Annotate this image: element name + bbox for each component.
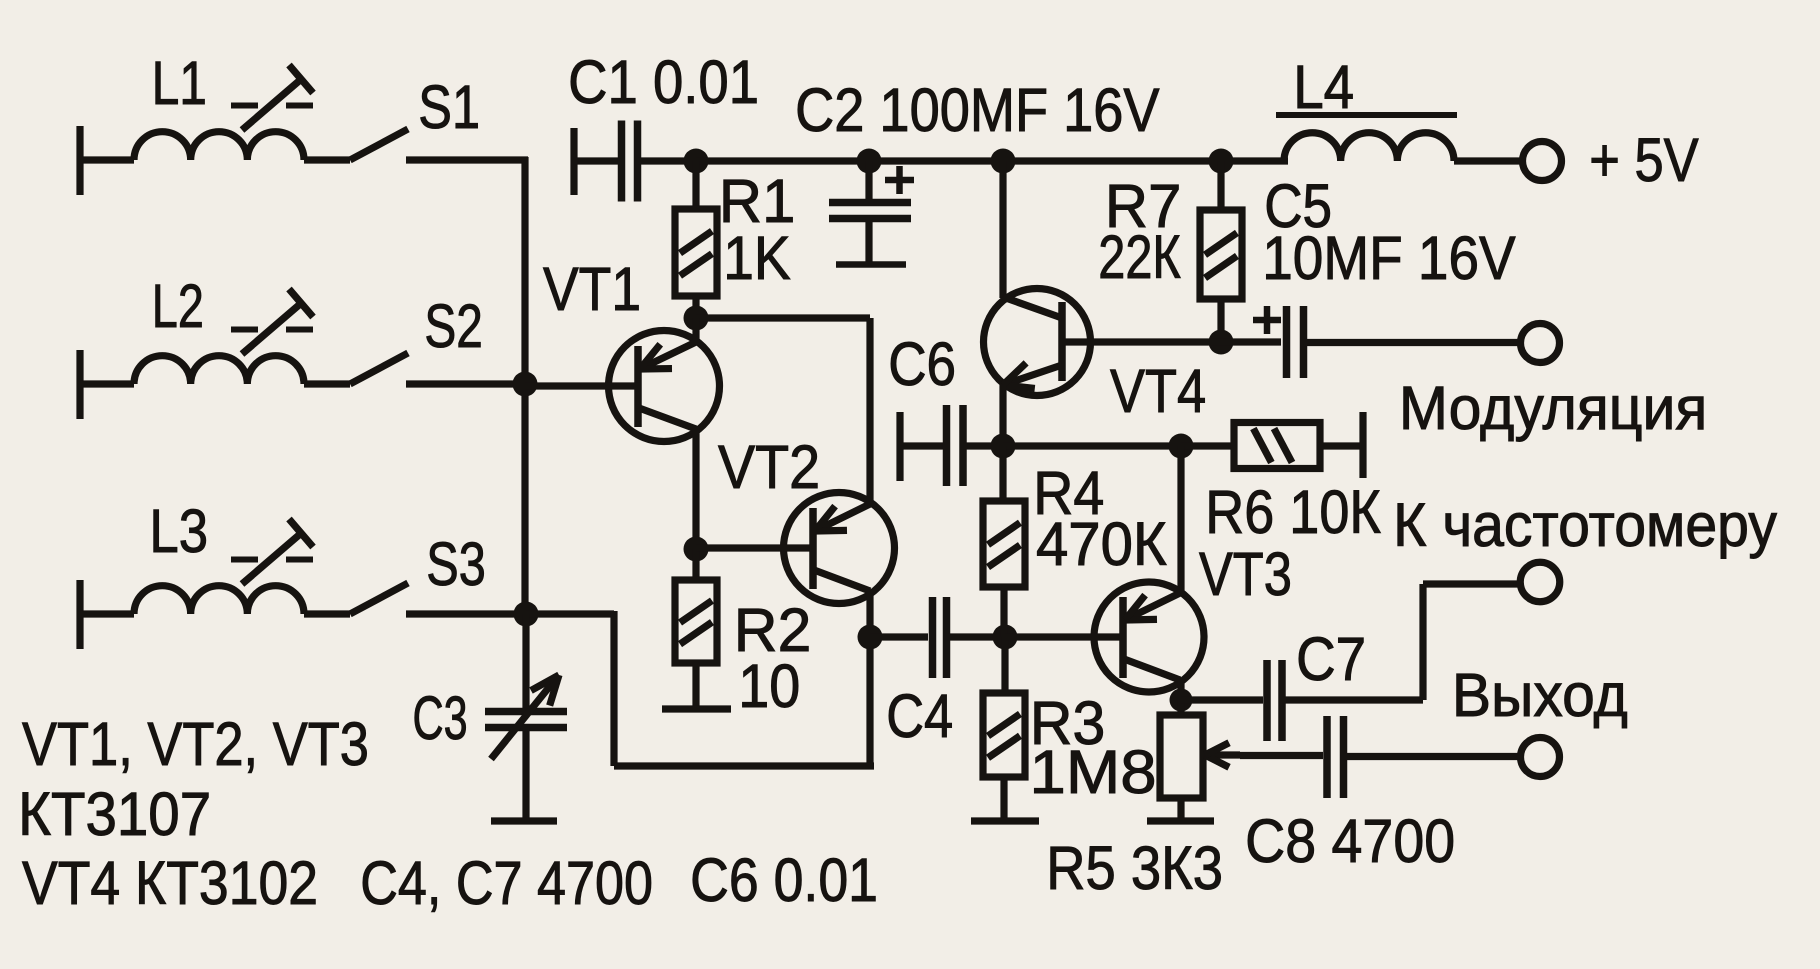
transistor VT4 collector wire [999, 161, 1006, 298]
node C2 junction on rail [857, 149, 882, 174]
label VT2 [718, 434, 820, 502]
wire VT3 node to C7 [1181, 696, 1263, 703]
adjustable core arrow of L1 [231, 65, 313, 130]
svg-text:C3: C3 [413, 685, 468, 753]
resistor R3 bottom lead [1000, 777, 1007, 821]
svg-text:C1 0.01: C1 0.01 [568, 49, 759, 116]
label VT4 [1110, 358, 1206, 426]
label +5V [1589, 126, 1699, 195]
transistor VT3 emitter [1125, 446, 1181, 620]
resistor R1 top lead [692, 161, 699, 209]
svg-text:VT4: VT4 [1110, 358, 1206, 426]
label R3 [1030, 689, 1105, 757]
svg-text:C6: C6 [888, 331, 956, 399]
inductor L3 [80, 580, 350, 649]
note C6 0.01 [690, 847, 878, 915]
capacitor C5 plates [1287, 306, 1304, 378]
resistor R4 bottom lead [1000, 587, 1007, 637]
wire C6 node to R6 node [1003, 442, 1181, 449]
label L2 [152, 272, 204, 340]
resistor R2 bottom lead [692, 663, 699, 708]
wire C6 to VT4 emitter node [963, 442, 1003, 449]
capacitor C6 plates [947, 405, 964, 486]
label R2 value 10 [738, 653, 800, 721]
label C6 [888, 331, 956, 399]
transistor VT4 emitter [1003, 363, 1062, 446]
note VT1 VT2 VT3 [22, 710, 369, 779]
resistor R7 [1200, 210, 1242, 299]
svg-text:10MF 16V: 10MF 16V [1262, 224, 1516, 292]
svg-text:22К: 22К [1098, 223, 1180, 292]
capacitor C3 plates [485, 712, 567, 728]
svg-text:470К: 470К [1036, 510, 1167, 579]
transistor VT1 emitter [640, 318, 696, 369]
capacitor C1 left lead [574, 157, 618, 164]
node R7 - VT4 base - C5 junction [1209, 330, 1234, 355]
inductor L2 [80, 350, 350, 419]
capacitor C3 arrow [491, 675, 559, 759]
label C2 100MF 16V [795, 77, 1160, 145]
label output [1452, 661, 1628, 729]
switch S3 [350, 583, 408, 614]
svg-text:VT3: VT3 [1199, 540, 1292, 609]
resistor R2 top lead [692, 549, 699, 580]
label L1 [152, 49, 207, 117]
node R7 top on rail [1209, 149, 1234, 174]
capacitor C2 top lead [865, 161, 872, 203]
transistor VT2 emitter [815, 318, 870, 531]
transistor VT2 base bar [809, 508, 817, 589]
label R4 [1033, 460, 1104, 528]
svg-text:C8 4700: C8 4700 [1245, 808, 1455, 876]
note VT4 KT3102 [22, 850, 318, 918]
label VT3 [1199, 540, 1292, 609]
svg-text:VT4 КТ3102: VT4 КТ3102 [22, 850, 318, 918]
node R1-VT1 emitter junction [684, 306, 709, 331]
transistor VT1 collector [639, 408, 696, 549]
wire bottom to VT2 collector [614, 762, 874, 769]
resistor R4 top lead [999, 446, 1006, 501]
label L3 [149, 497, 208, 565]
terminal modulation output circle [1521, 324, 1560, 363]
svg-text:C7: C7 [1296, 626, 1366, 693]
note C4 C7 4700 [360, 850, 653, 918]
svg-text:Модуляция: Модуляция [1399, 374, 1707, 442]
svg-text:К частотомеру: К частотомеру [1393, 490, 1777, 559]
node R6 - VT3 emitter junction [1169, 434, 1194, 459]
resistor R3 [983, 693, 1025, 777]
node C4 - R4 - R3 - VT3 base junction [993, 625, 1018, 650]
svg-text:C6 0.01: C6 0.01 [690, 847, 878, 915]
svg-text:L2: L2 [152, 272, 204, 340]
node bus-L2 junction [513, 372, 538, 397]
capacitor C2 bottom terminal bar [836, 261, 906, 268]
svg-text:КТ3107: КТ3107 [18, 781, 211, 848]
resistor R7 top lead [1217, 161, 1224, 210]
resistor R5 body [1160, 715, 1203, 798]
inductor L1 [80, 126, 350, 195]
svg-text:L3: L3 [149, 497, 208, 565]
label S2 [424, 291, 482, 360]
capacitor C4 plates [933, 597, 947, 678]
resistor R2 ground bar [662, 705, 731, 712]
svg-text:VT1, VT2, VT3: VT1, VT2, VT3 [22, 710, 369, 779]
label L4 [1293, 54, 1354, 121]
capacitor C3 stem top [522, 614, 529, 711]
capacitor C2 bottom lead [865, 219, 872, 263]
label R7 [1105, 171, 1181, 240]
capacitor C2 plates [829, 203, 911, 219]
node VT3 collector - R5 - C7 junction [1170, 689, 1193, 712]
label R4 value 470K [1036, 510, 1167, 579]
wire S1 to bus corner [406, 156, 528, 163]
capacitor C3 bottom terminal bar [491, 817, 557, 824]
transistor VT3 body [1094, 582, 1204, 692]
capacitor C3 stem bottom [522, 728, 529, 820]
resistor R3 ground bar [971, 817, 1039, 824]
resistor R5 bottom lead [1177, 798, 1184, 820]
resistor R6 left lead [1181, 442, 1234, 449]
wire VT2 collector node to C4 [870, 633, 928, 640]
node C1-R1 junction [684, 149, 709, 174]
svg-text:S1: S1 [418, 72, 480, 141]
resistor R1 [675, 209, 717, 296]
resistor R6 terminal bar [1359, 412, 1366, 478]
svg-text:C4, C7 4700: C4, C7 4700 [360, 850, 653, 918]
transistor VT3 base wire [1005, 633, 1123, 640]
resistor R2 [675, 580, 717, 663]
svg-text:C4: C4 [886, 683, 953, 751]
transistor VT2 collector [814, 570, 870, 766]
svg-text:S3: S3 [426, 530, 486, 599]
svg-text:1K: 1K [723, 224, 791, 292]
svg-text:VT1: VT1 [543, 256, 641, 324]
resistor R6 [1234, 423, 1320, 469]
switch S2 [350, 353, 408, 384]
switch S1 [350, 129, 408, 160]
wire R1 node to VT2 emitter corner [696, 314, 870, 321]
terminal frequency meter circle [1520, 562, 1560, 602]
note KT3107 [18, 781, 211, 848]
node VT1 collector - R2 - VT2 base junction [684, 537, 709, 562]
wire corner up to freq-meter [1419, 584, 1426, 700]
label C5 [1264, 173, 1332, 241]
label S1 [418, 72, 480, 141]
transistor VT4 base bar [1058, 302, 1066, 381]
label R3 value 1M8 [1030, 739, 1157, 807]
label R1 value 1K [723, 224, 791, 292]
node VT2 collector - C4 junction [858, 625, 883, 650]
wire C8 to output terminal [1344, 753, 1521, 760]
resistor R5 top lead [1177, 700, 1184, 715]
transistor VT1 base wire [525, 382, 638, 389]
svg-text:1М8: 1М8 [1030, 739, 1157, 807]
svg-text:+ 5V: + 5V [1589, 126, 1699, 195]
transistor VT1 body [609, 331, 720, 442]
label C3 [413, 685, 468, 753]
label modulation [1399, 374, 1707, 442]
resistor R1 bottom lead [692, 296, 699, 318]
wire S2 to bus [406, 380, 525, 387]
label C7 [1296, 626, 1366, 693]
label R2 [734, 596, 812, 664]
capacitor C8 plates [1327, 716, 1344, 798]
node C6 - VT4 emitter - R4 junction [991, 434, 1016, 459]
wire S3 to bus [406, 610, 526, 617]
transistor VT2 base wire [696, 544, 813, 551]
capacitor C2 plus sign [885, 166, 914, 194]
label C8 4700 [1245, 808, 1455, 876]
svg-text:S2: S2 [424, 291, 482, 360]
label VT1 [543, 256, 641, 324]
label R6 10K [1205, 479, 1381, 547]
svg-text:10: 10 [738, 653, 800, 721]
wire VT4 base node to C5 [1221, 338, 1281, 345]
capacitor C6 open terminal bar [896, 412, 903, 481]
inductor L4 underline [1276, 112, 1457, 118]
resistor R7 bottom lead [1217, 299, 1224, 342]
svg-text:C2 100MF 16V: C2 100MF 16V [795, 77, 1160, 145]
capacitor C1 plates [622, 121, 638, 202]
wire corner down segment [610, 611, 617, 766]
label R1 [719, 166, 795, 235]
svg-text:R6 10К: R6 10К [1205, 479, 1381, 547]
label to frequency meter [1393, 490, 1777, 559]
transistor VT4 base wire [1062, 338, 1221, 345]
capacitor C5 plus sign [1253, 306, 1281, 334]
transistor VT4 body [984, 289, 1091, 396]
wire C7 to corner [1282, 696, 1423, 703]
label S3 [426, 530, 486, 599]
label C5 value 10MF 16V [1262, 224, 1516, 292]
svg-text:L1: L1 [152, 49, 207, 117]
resistor R6 right lead [1320, 442, 1363, 449]
transistor VT1 base bar [634, 346, 642, 427]
terminal output circle [1521, 738, 1560, 777]
label C1 0.01 [568, 49, 759, 116]
node bus-S3-C3 junction [514, 602, 539, 627]
capacitor C7 plates [1267, 660, 1282, 741]
inductor L4 [1284, 133, 1522, 161]
wire to freq-meter terminal [1423, 580, 1522, 587]
transistor VT3 collector [1124, 659, 1181, 700]
resistor R5 wiper arrow [1205, 743, 1240, 768]
svg-text:R5 3К3: R5 3К3 [1046, 835, 1223, 903]
wire top rail [696, 157, 1288, 164]
wire R5 wiper to C8 [1240, 752, 1323, 759]
transistor VT2 body [784, 493, 895, 604]
transistor VT3 base bar [1119, 597, 1127, 678]
capacitor C1 input terminal bar [570, 128, 577, 195]
terminal +5V [1523, 142, 1562, 181]
wire S3 node to corner [526, 610, 614, 617]
resistor R5 ground bar [1147, 817, 1214, 824]
wire C5 to modulation terminal [1304, 339, 1523, 346]
wire C1 to node [638, 157, 701, 164]
label R5 3K3 [1046, 835, 1223, 903]
adjustable core arrow of L3 [231, 519, 313, 584]
node VT4 collector on rail [991, 149, 1016, 174]
capacitor C6 left lead [900, 442, 943, 449]
label R7 value 22K [1098, 223, 1180, 292]
wire C4 to node [947, 633, 1006, 640]
adjustable core arrow of L2 [231, 289, 313, 354]
transistor VT4 collector diagonal [1003, 297, 1062, 318]
resistor R3 top lead [1001, 637, 1008, 693]
label C4 [886, 683, 953, 751]
svg-text:Выход: Выход [1452, 661, 1628, 729]
wire bus vertical [521, 157, 528, 614]
svg-text:L4: L4 [1293, 54, 1354, 121]
svg-text:VT2: VT2 [718, 434, 820, 502]
resistor R4 [983, 501, 1025, 587]
